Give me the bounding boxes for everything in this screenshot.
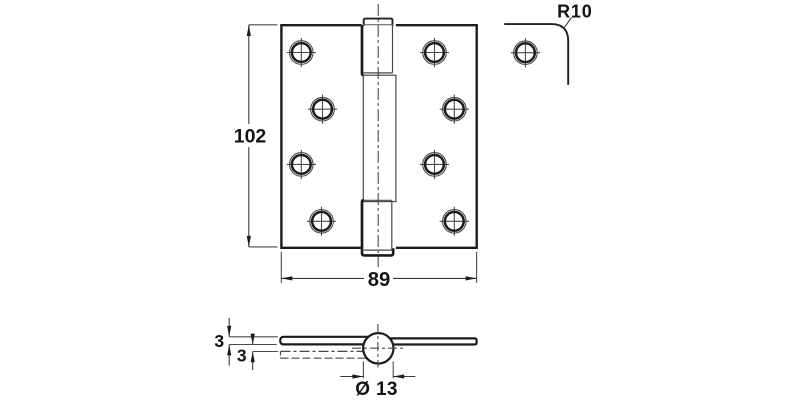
- screw hole L2: [308, 95, 337, 124]
- dimension diameter 13: dimension line with arrowheads: [340, 374, 415, 378]
- hinge centerline (pin axis, front view): [377, 4, 379, 267]
- plate top edge seen through knuckle (thin): [363, 24, 394, 26]
- label R10: [557, 1, 592, 21]
- side view: upper leaf bar (right of knuckle): [390, 338, 477, 344]
- side view: upper leaf bar (left of knuckle): [280, 337, 368, 345]
- screw hole L1: [287, 38, 316, 67]
- right leaf plate (front view): [396, 25, 477, 248]
- screw hole R1: [420, 38, 449, 67]
- screw hole R2: [440, 95, 469, 124]
- svg-text:R10: R10: [557, 1, 592, 21]
- screw hole R4: [440, 207, 469, 236]
- dimension 102: dimension line with arrowheads: [247, 25, 251, 247]
- dimension 3 (leaf offset): extension line: [253, 351, 278, 353]
- dimension 89: text label: [368, 269, 391, 291]
- knuckle top cap (pin end above plate): [364, 19, 393, 26]
- dimension 102: extension lines: [249, 25, 278, 247]
- side view: knuckle circle: [363, 333, 393, 363]
- svg-text:89: 89: [368, 269, 391, 291]
- dimension 89: extension lines: [281, 252, 476, 283]
- dimension 102: text label: [234, 126, 267, 148]
- knuckle thick edge, upper (left leaf): [362, 25, 364, 75]
- svg-text:102: 102: [234, 126, 267, 148]
- corner radius detail: leader line: [564, 17, 572, 28]
- screw hole R3: [420, 150, 449, 179]
- dimension 3 (upper leaf): text label: [214, 331, 224, 351]
- side view: vertical centerline of pin: [377, 324, 379, 368]
- knuckle bottom segment outline: [364, 200, 392, 250]
- dimension diameter 13: text label: [355, 379, 397, 400]
- dimension 89: dimension line with arrowheads: [281, 276, 476, 280]
- dimension 3 (leaf offset): dimension line with arrowheads: [251, 333, 255, 370]
- knuckle top segment outline: [364, 25, 393, 73]
- svg-text:3: 3: [237, 345, 247, 365]
- corner radius detail: screw hole: [511, 38, 540, 67]
- screw hole L3: [287, 150, 316, 179]
- dimension 3 (upper leaf): dimension line with arrowheads: [227, 318, 231, 366]
- corner radius detail: rounded corner outline: [504, 24, 568, 85]
- knuckle thick edge, lower (left leaf): [362, 200, 364, 248]
- knuckle bottom cap (pin end below plate, thick): [362, 247, 393, 256]
- side view: hidden lower leaf (dashed): [281, 351, 366, 358]
- side view: horizontal centerline of pin: [352, 347, 405, 349]
- screw hole L4: [307, 207, 336, 236]
- left leaf plate (front view): [281, 25, 361, 248]
- dimension 3 (leaf offset): text label: [237, 345, 247, 365]
- knuckle middle segment (right leaf): [363, 75, 396, 201]
- svg-text:3: 3: [214, 331, 224, 351]
- dimension diameter 13: extension lines: [363, 362, 393, 379]
- svg-text:Ø 13: Ø 13: [355, 379, 397, 400]
- dimension 3 (upper leaf): extension lines: [229, 337, 278, 345]
